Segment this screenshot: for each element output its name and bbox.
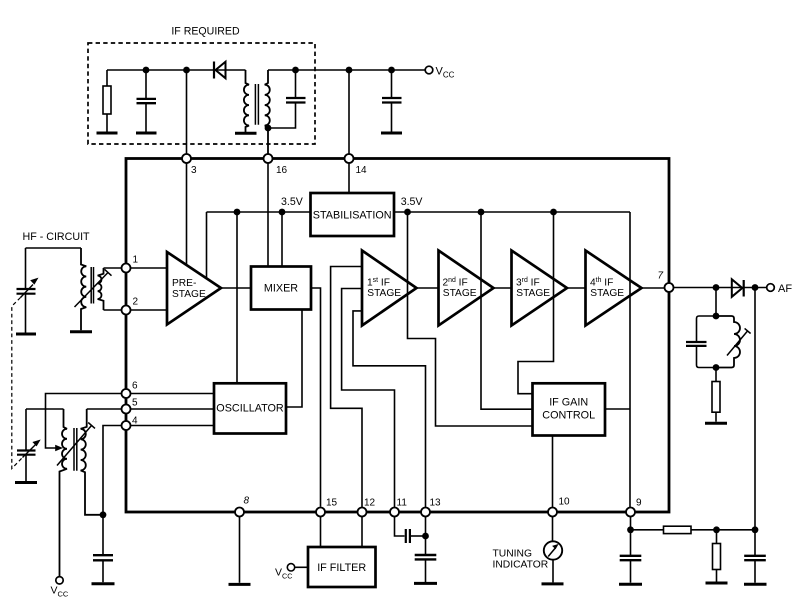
wire tuning indicator to ground [552,560,554,583]
svg-text:IF GAIN: IF GAIN [549,397,588,409]
wire pin 5 to oscillator coupling coil [87,408,122,410]
ground below CV2 [15,481,37,484]
svg-text:MIXER: MIXER [264,283,298,295]
capacitor C5 (series pin 11 to pin 13) [406,529,410,543]
svg-text:STAGE: STAGE [367,288,401,299]
junction top rail at C3 [388,67,395,74]
svg-text:12: 12 [364,498,376,509]
wire pin 12 staircase to 1st IF stage upper input [331,267,362,508]
variable capacitor CV2 (oscillator tank) [17,409,36,481]
svg-text:INDICATOR: INDICATOR [493,559,549,570]
wire 2nd IF output to 3rd IF input [495,287,512,289]
junction tank top [713,313,720,320]
ground below R1 [97,132,118,135]
junction AF line after diode [752,284,759,291]
node 3.5V rail right of STABILISATION [394,211,630,213]
svg-text:IF REQUIRED: IF REQUIRED [171,26,240,38]
pin 2 [122,306,131,315]
svg-text:3rd IF: 3rd IF [516,277,540,288]
ganged tuning dashed link [12,298,23,469]
diode D1 (IF REQUIRED box) [214,62,226,79]
wire Vcc terminal to IF FILTER [295,566,308,568]
ground below R4 [705,422,727,425]
junction AF line at tank [713,284,720,291]
wire rail end through 4th IF down to pin 9 [629,212,631,508]
wire pin 7 to AF output [674,287,767,289]
transformer T2 secondary winding [98,268,104,310]
junction pin 4 decoupling node [100,511,107,518]
junction T1 secondary bottom [265,125,272,132]
svg-text:1st IF: 1st IF [367,277,390,288]
amplifier 4th IF STAGE U1i [586,251,642,326]
pin 4 [122,421,131,430]
trimmer bar on T2 [75,269,112,307]
wire 3.5V rail drop to OSCILLATOR top [236,212,238,383]
IF REQUIRED dashed enclosure [88,43,315,144]
svg-text:6: 6 [132,381,138,392]
wire pin 1 to PRE-STAGE input [131,267,167,269]
svg-text:3.5V: 3.5V [401,196,424,208]
wire R4 to ground [715,412,717,422]
wire AGC line from rail through 3rd IF to IF GAIN CONTROL [518,212,554,394]
wire pin 8 to ground [239,517,241,583]
capacitor C7 (pin 9 node) [620,556,642,560]
capacitor C3 (Vcc decoupling top) [382,70,402,132]
svg-text:1: 1 [133,255,139,266]
wire pin 4 to decoupling node [103,426,121,515]
wire pin 12 to IF FILTER [361,517,363,548]
junction tank bottom [713,364,720,371]
svg-text:9: 9 [636,498,642,509]
arrowhead pin 6 tap [55,445,63,451]
junction top rail at pin 3 riser [183,67,190,74]
wire C7 to ground [630,560,632,583]
wire 4th IF output to pin 7 [642,287,664,289]
wire AGC line from rail through 2nd IF to IF GAIN CONTROL [481,212,533,409]
svg-text:14: 14 [356,165,368,176]
wire IF GAIN CONTROL output to pin 9 line [605,408,630,410]
svg-text:8: 8 [244,496,250,507]
wire oscillator tank top (variable capacitor to coil) [26,408,64,410]
ground below HF variable capacitor [16,333,36,336]
junction top rail at C2 [292,67,299,74]
transformer T1 core [255,84,258,125]
wire AF node down to detector circuit [754,288,756,530]
svg-text:11: 11 [397,498,408,509]
transformer T2 primary winding (HF circuit) [81,248,86,330]
wire pin 6 to OSCILLATOR [131,393,214,395]
svg-text:13: 13 [430,498,442,509]
wire OSCILLATOR output to MIXER bottom [286,310,302,408]
junction AF RC node [752,526,759,533]
wire 3.5V rail drop to MIXER top [281,212,283,267]
junction 3.5V rail at oscillator drop [234,209,241,216]
svg-text:3.5V: 3.5V [281,196,304,208]
svg-text:2nd IF: 2nd IF [443,277,468,288]
svg-text:HF - CIRCUIT: HF - CIRCUIT [23,231,91,243]
junction top rail at pin 14 riser [346,67,353,74]
wire pin 13 staircase to 1st IF stage lower input [353,311,426,508]
svg-text:16: 16 [276,165,288,176]
amplifier 1st IF STAGE U1f [362,251,417,326]
wire pin 10 to tuning indicator [552,517,554,542]
trimmer bar on L1 [727,328,751,355]
wire pin 3 riser from top rail [186,70,188,154]
wire pin 11 staircase to 1st IF stage input [342,289,395,508]
svg-text:STAGE: STAGE [443,288,477,299]
terminal Vcc oscillator coil [56,577,63,584]
junction pin 9 node [627,526,634,533]
resistor R4 (detector load) [712,382,720,413]
junction 3.5V rail at 2nd IF drop [478,209,485,216]
capacitor C9 plates [686,342,707,346]
ground below C3 [381,132,402,135]
svg-text:TUNING: TUNING [493,549,532,560]
wire pin 6 to oscillator coil tap [46,394,122,449]
block IF FILTER [308,547,376,587]
block MIXER U1b [251,267,311,310]
pin 3 [182,154,191,163]
svg-text:STAGE: STAGE [172,289,206,300]
transformer T3 core [74,428,77,471]
terminal Vcc IF FILTER [287,564,294,571]
ground below T2 primary [70,330,92,333]
ground below C6 [414,582,437,585]
junction 3.5V rail at 1st IF drop [404,209,411,216]
wire diode node to tank top [715,288,717,317]
junction 3.5V rail at 3rd IF drop [550,209,557,216]
pin 12 [358,508,367,517]
pin 7 [665,283,674,292]
detector tank circuit left branch with capacitor C9 [697,316,717,368]
wire pin 9 down to RC node [630,517,632,556]
meter tuning indicator M1 [544,541,562,559]
svg-text:IF FILTER: IF FILTER [317,562,366,574]
wire pin 13 down to node [425,517,427,556]
svg-text:OSCILLATOR: OSCILLATOR [216,403,284,415]
ground below R3 [706,582,728,585]
capacitor C8 (AF node to ground) [744,530,766,583]
block STABILISATION U1a [311,193,395,236]
wire series capacitor to pin 13 node [411,535,426,537]
svg-text:5: 5 [132,397,138,408]
wire MIXER output to pin 15 riser [311,288,321,507]
wire tank bottom to resistor R4 [715,368,717,382]
wire pin 14 to STABILISATION box [348,163,350,193]
capacitor C6 (pin 13 node to ground) [415,555,437,582]
pin 10 [548,508,557,517]
variable capacitor CV1 (HF circuit) [17,289,36,294]
transformer T3 tank winding (oscillator) [60,409,68,576]
transformer T2 core [91,267,93,304]
arrow on CV1 [21,278,39,298]
resistor R3 (vertical, to ground) [713,544,721,570]
wire PRE-STAGE output to MIXER [222,287,251,289]
junction pin 13 node [422,533,429,540]
svg-text:3: 3 [191,165,197,176]
block OSCILLATOR U1c [214,383,286,433]
pin 15 [316,508,325,517]
amplifier 2nd IF STAGE U1g [439,251,494,326]
capacitor C4 (pin 4 decoupling) [93,515,113,582]
svg-text:4: 4 [132,416,138,427]
node 3.5V rail left of STABILISATION [207,211,311,213]
transformer T1 primary winding (IF REQUIRED) [244,70,249,132]
wire pin 4 to OSCILLATOR [131,425,214,427]
pin 5 [122,405,131,414]
wire 1st IF output to 2nd IF input [417,287,439,289]
amplifier PRE-STAGE U1e [167,252,221,325]
svg-text:15: 15 [326,498,338,509]
svg-text:AF: AF [778,283,792,295]
wire 3rd IF output to 4th IF input [568,287,586,289]
wire pin 16 to MIXER top [267,163,269,267]
block IF GAIN CONTROL U1d [533,383,606,435]
transformer T1 secondary winding [265,70,270,154]
diode D2 (AF detector) [732,279,744,297]
ground below T1 primary [235,132,257,135]
pin 1 [122,264,131,273]
ground below C1 [136,132,157,135]
junction top rail at C1 [143,67,150,74]
pin 13 [421,508,430,517]
ground below C7 [619,583,642,586]
wire top supply rail left segment (resistor to transformer) [107,69,246,71]
transformer T3 coupling winding [81,409,103,515]
wire horizontal resistor to node [691,529,755,531]
svg-text:4th IF: 4th IF [590,277,613,288]
ground below C4 [92,582,115,585]
ground below meter [542,582,564,585]
ground below pin 8 [229,583,251,586]
wire pin 9 node to horizontal resistor [631,529,664,531]
wire pin 5 to OSCILLATOR [131,408,214,410]
wire IF GAIN CONTROL bottom to pin 10 [552,436,554,508]
arrow on CV2 [23,440,41,458]
wire AGC line from rail through 1st IF to IF GAIN CONTROL [408,212,533,426]
wire pin 3 tap to PRE-STAGE top slope [186,159,188,265]
wire pin 14 riser from top rail [348,70,350,154]
svg-text:CONTROL: CONTROL [542,410,595,422]
terminal AF output [767,284,775,292]
detector tank inductor L1 (right branch) [716,316,740,368]
wire T2 secondary to pins 1,2 [104,268,122,310]
wire pin 2 to PRE-STAGE input [131,309,167,311]
capacitor C2 (IF REQUIRED box right) [268,70,306,128]
resistor R1 (IF REQUIRED box) [103,70,111,132]
wire pin 11 to series capacitor [395,517,405,537]
wire vertical resistor to ground [716,570,718,583]
pin 16 [264,154,273,163]
svg-text:7: 7 [658,271,664,282]
wire top supply rail right segment (transformer to Vcc terminal) [268,69,425,71]
svg-text:10: 10 [559,497,571,508]
terminal Vcc top [425,66,433,74]
trimmer bar on T3 [57,423,95,466]
svg-text:2: 2 [133,297,139,308]
svg-text:PRE-: PRE- [172,278,196,289]
svg-text:STAGE: STAGE [590,288,624,299]
wire 3.5V rail drop to PRE-STAGE slope [206,212,208,278]
IC block TCA440 outline [126,159,669,513]
pin 11 [390,508,399,517]
pin 8 [235,508,244,517]
ground below C8 [744,583,767,586]
pin 9 [626,508,635,517]
svg-text:STABILISATION: STABILISATION [313,210,392,222]
junction 3.5V rail at mixer drop [279,209,286,216]
HF circuit frame wire [26,248,82,333]
amplifier 3rd IF STAGE U1h [512,251,568,326]
capacitor C1 (IF REQUIRED box) [137,70,157,132]
wire node down to vertical resistor [716,530,718,544]
resistor R2 (horizontal, pin 9 node) [664,526,692,533]
svg-text:STAGE: STAGE [516,288,550,299]
junction R2-R3 node [713,526,720,533]
pin 14 [345,154,354,163]
wire pin 15 to IF FILTER [320,517,322,548]
pin 6 [122,389,131,398]
